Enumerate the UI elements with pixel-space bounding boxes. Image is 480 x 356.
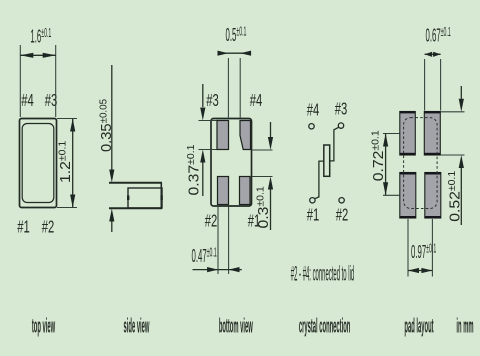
dimension 0.37 line upper [202, 84, 204, 107]
svg-text:#4: #4 [250, 92, 263, 111]
bottom view pad #2 [218, 177, 229, 205]
svg-text:#2: #2 [205, 212, 218, 231]
svg-text:in mm: in mm [456, 315, 473, 338]
svg-text:crystal connection: crystal connection [299, 315, 350, 338]
svg-text:bottom view: bottom view [219, 315, 253, 338]
dimension 0.97 line [408, 270, 432, 272]
side view body [128, 188, 162, 208]
dimension 0.5 arrows [218, 51, 229, 56]
dimension 0.47 arrows [207, 267, 218, 272]
dimension 0.47 extension lines [218, 207, 229, 275]
dimension 1.6 arrows [20, 53, 33, 58]
bottom view pad #3 [217, 121, 229, 150]
wire crystal to pin 3 [330, 127, 339, 161]
dimension 0.52 line upper [460, 86, 462, 99]
dimension 0.3 extension lines [252, 150, 273, 177]
crystal element Y1 [324, 145, 330, 176]
dimension 1.2 extension lines [57, 119, 77, 208]
side view right edge [160, 183, 162, 208]
dimension 0.37 extension lines [199, 121, 217, 150]
dimension 0.97 arrows [408, 268, 419, 273]
dimension 0.5 line [220, 52, 251, 54]
side view right pad mark [160, 196, 162, 201]
pad layout land 3 (top-right) [424, 112, 440, 156]
dimension 0.72 line [385, 134, 387, 196]
dimension 0.47 line [193, 269, 242, 271]
pad layout land 1 (bottom-left) [400, 173, 416, 219]
dimension 0.37 line lower [202, 163, 204, 197]
svg-text:side view: side view [124, 315, 150, 338]
dimension 0.52 extension lines [441, 112, 465, 155]
dimension 0.97 extension lines [408, 219, 432, 277]
connection terminal circle pin 4 [309, 124, 314, 129]
svg-text:#2: #2 [336, 206, 349, 225]
dimension 1.2 line [72, 119, 74, 208]
connection terminal circle pin 1 [310, 198, 315, 203]
svg-text:#4: #4 [307, 101, 320, 120]
top view inner lid outline [22, 124, 54, 203]
svg-text:#1: #1 [307, 206, 320, 225]
pad layout land 2 (bottom-right) [425, 173, 441, 219]
svg-text:#3: #3 [335, 100, 348, 119]
dimension 0.52 line lower [460, 168, 462, 225]
bottom view pad #4 [240, 121, 251, 150]
svg-text:top view: top view [32, 315, 55, 338]
dimension 0.72 extension lines [383, 134, 400, 196]
dimension 1.2 arrows [70, 119, 75, 132]
svg-text:#3: #3 [206, 92, 219, 111]
top view outer body outline [20, 119, 57, 208]
pad layout dashed component outline [404, 118, 438, 209]
dimension 0.3 line lower [270, 190, 272, 231]
bottom view body outline [211, 119, 252, 207]
pad layout land 4 (top-left) [400, 112, 416, 156]
dimension 1.6 line [20, 54, 55, 56]
dimension 1.6 extension lines [20, 45, 55, 117]
dimension 0.67 arrows [425, 52, 433, 57]
bottom view pad #1 [240, 177, 251, 205]
svg-text:#2: #2 [42, 218, 55, 237]
dimension 0.5 extension lines [228, 58, 240, 118]
dimension 0.67 extension lines [425, 59, 441, 111]
svg-text:#1: #1 [17, 218, 30, 237]
side view left pad mark [127, 196, 129, 201]
side view lid top line [109, 182, 162, 184]
dimension 0.3 line upper [270, 122, 272, 137]
side view base bottom line [109, 207, 162, 209]
svg-text:#2 - #4: connected to lid: #2 - #4: connected to lid [291, 263, 354, 286]
connection terminal circle pin 3 [338, 123, 343, 128]
dimension 0.35 line lower [111, 221, 113, 232]
svg-text:pad layout: pad layout [404, 315, 433, 338]
connection terminal circle pin 2 [339, 198, 344, 203]
svg-text:#4: #4 [21, 92, 34, 111]
wire crystal to pin 1 [315, 161, 324, 199]
dimension 0.35 line upper [111, 65, 113, 170]
pad layout land caps [400, 111, 441, 218]
dimension 0.67 line [425, 53, 441, 55]
dimension 0.72 arrows [383, 134, 388, 147]
